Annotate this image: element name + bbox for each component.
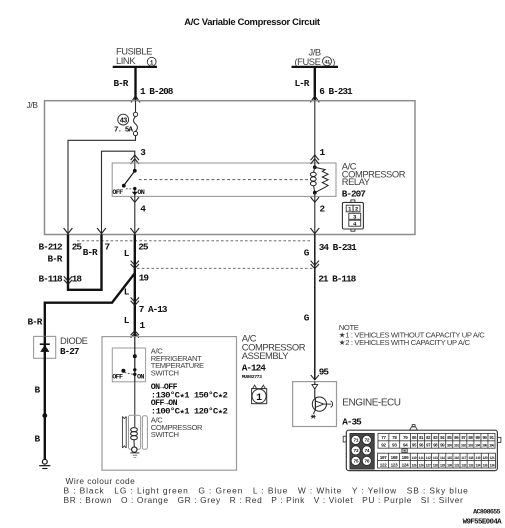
J/B junction block box [45,101,416,235]
J/B bottom connector dashed line [77,240,311,242]
svg-text:102: 102 [461,445,466,449]
svg-text:7 A-13: 7 A-13 [139,304,168,315]
svg-text:131: 131 [454,464,459,468]
fusible link bus bar [113,66,157,68]
relay coil node bottom [313,191,317,195]
svg-text:118: 118 [468,457,473,461]
compressor switch core symbol [121,416,123,448]
svg-text:SWITCH: SWITCH [151,430,179,439]
wire L-R J/B fuse to pin 6 B-231 [314,67,316,101]
svg-text:116: 116 [454,457,459,461]
svg-text:123: 123 [391,462,399,468]
A/C compressor assembly box [102,337,237,471]
svg-text:92: 92 [381,443,386,449]
connector arrow into J/B at B-208 [131,96,140,103]
svg-text:B-118: B-118 [39,274,64,285]
svg-text:ASSEMBLY: ASSEMBLY [242,350,289,361]
svg-text:SWITCH: SWITCH [151,369,179,378]
svg-text:108: 108 [391,455,399,461]
wire inside J/B to fuse 43 [135,101,137,113]
svg-text:134: 134 [475,464,480,468]
wire J/B pin 7 up to relay contact pin 3 [102,151,135,234]
arrow from ON contact down [132,192,138,196]
svg-text:B-212: B-212 [39,242,64,253]
svg-text:132: 132 [461,464,466,468]
diode symbol [40,343,50,345]
svg-text:129: 129 [440,464,445,468]
connector arrow into J/B at B-231 [310,96,319,103]
svg-text:A/C Variable Compressor Circui: A/C Variable Compressor Circuit [184,16,320,27]
svg-text:25: 25 [138,242,149,253]
wire relay pin 4 to J/B exit pin 25 [131,197,139,202]
svg-text:109: 109 [401,455,409,461]
svg-text:124: 124 [401,462,409,468]
connector arrows at relay pin 3 [131,155,139,160]
svg-text:6 B-231: 6 B-231 [319,86,353,97]
connector arrows into assembly pin 1 [131,331,139,336]
svg-text:OFF: OFF [112,189,123,197]
emitter to internal ground [313,410,315,414]
connector B-118 pin 21 crossing [311,261,319,266]
svg-text:ON: ON [137,189,144,197]
svg-text:110: 110 [411,457,416,461]
wire relay pin 2 to J/B exit pin 34 [311,197,319,202]
svg-text:LINK: LINK [116,55,136,66]
svg-text:119: 119 [475,457,480,461]
connector A-124 round icon [253,385,257,389]
wire into ECU [314,382,316,399]
open triangle [312,385,318,389]
svg-text:105: 105 [482,445,487,449]
svg-text:A-35: A-35 [342,416,362,427]
svg-text:73: 73 [353,448,358,454]
J/B fuse bus bar [292,66,339,68]
svg-text:95: 95 [319,367,330,378]
relay contact common dot [133,169,137,173]
svg-text:72: 72 [364,438,369,444]
wire B-R fusible link to J/B pin 1 B-208 [134,67,136,101]
svg-text:1: 1 [256,393,262,404]
svg-text:136: 136 [490,464,495,468]
svg-text:RELAY: RELAY [342,176,371,187]
wire through diode to ground [44,336,46,459]
svg-text:41: 41 [324,60,330,66]
svg-text:126: 126 [419,464,424,468]
A-35 circular cavity block pins 71-76 [350,434,374,470]
wire temp switch to compressor switch [134,382,136,427]
svg-text:78: 78 [392,435,397,441]
svg-text:ON: ON [137,373,144,381]
svg-text:BR : Brown O : Orange GR :: BR : Brown O : Orange GR : Grey R : Red … [64,495,464,505]
svg-text:76: 76 [364,459,369,465]
svg-text:A-124: A-124 [242,363,267,374]
fuse 43 7.5A [133,112,137,116]
svg-text:B-207: B-207 [342,188,366,199]
junction dot [42,413,47,418]
wire inside J/B from B-231 pin 6 down to relay coil pin 1 [314,101,316,168]
connector arrow into ECU pin 95 [311,375,319,380]
relay coil node top [313,165,317,169]
svg-text:115: 115 [447,457,452,461]
svg-text:1: 1 [348,206,352,213]
svg-text:114: 114 [440,457,445,461]
relay resistor (parallel) [315,167,328,192]
wire fuse 43 output to J/B exit pin 25 (B-212) [68,136,136,235]
svg-text:107: 107 [380,455,388,461]
relay coil windings [314,167,315,172]
svg-text:B-R: B-R [83,247,98,258]
right guide box [142,416,147,450]
svg-text:111: 111 [419,457,424,461]
svg-text:43: 43 [120,117,127,125]
svg-text:L-R: L-R [295,78,310,89]
dashed line relay contact to coil [139,179,310,181]
svg-text:71: 71 [353,438,358,444]
svg-text:DIODE: DIODE [60,335,88,346]
svg-text:121: 121 [490,457,495,461]
connector B-118 pin 18 crossing [64,276,72,281]
svg-text:25: 25 [72,242,83,253]
wire through temp switch [134,337,136,382]
svg-text:J/B: J/B [27,100,39,110]
connector arrows at relay pin 1 [311,155,319,160]
connector B-118 pin 19 crossing [131,261,139,266]
svg-text:133: 133 [468,464,473,468]
svg-text:135: 135 [482,464,487,468]
svg-text:2: 2 [355,206,359,213]
compressor case ground [130,452,139,454]
ON contact dot [133,187,136,190]
svg-text:1 B-208: 1 B-208 [140,86,174,97]
connector A-35 pin layout [343,425,501,471]
svg-text:125: 125 [411,464,416,468]
wire G from J/B pin 34 B-231 to engine ECU pin 95 [314,235,316,380]
connector A-13 pin 7 crossing [131,297,139,302]
compressor switch terminal circle [132,447,137,452]
compressor switch body [129,415,141,449]
svg-text:103: 103 [468,445,473,449]
svg-text:104: 104 [475,445,480,449]
svg-text:113: 113 [433,457,438,461]
compressor switch coil [131,428,138,432]
svg-text:W9F55E004A: W9F55E004A [463,519,503,527]
svg-text:117: 117 [461,457,466,461]
svg-text:93: 93 [392,443,397,449]
svg-text:18: 18 [72,274,83,285]
svg-text:7: 7 [105,242,110,253]
svg-text:1: 1 [150,59,154,66]
svg-text:130: 130 [447,464,452,468]
svg-text:112: 112 [426,457,431,461]
svg-text:19: 19 [139,273,150,284]
svg-text:74: 74 [364,448,369,454]
svg-text:B-R: B-R [28,317,43,328]
engine-ECU box [293,382,337,427]
svg-text:120: 120 [482,457,487,461]
svg-text:MU802773: MU802773 [242,374,262,380]
svg-text:ENGINE-ECU: ENGINE-ECU [342,398,401,409]
wire L from J/B pin 25 to A/C compressor assembly pin 1 [134,235,136,337]
wire B-R U-loop J/B pin 25 through B-118 pin 18 back to pin 7 [68,235,102,290]
A-35 keying tab [402,449,407,453]
svg-text:7. 5A: 7. 5A [114,127,134,135]
svg-text:75: 75 [353,459,358,465]
svg-text:34 B-231: 34 B-231 [319,242,357,253]
svg-text:4: 4 [353,221,357,228]
svg-text:77: 77 [381,435,386,441]
svg-text:79: 79 [403,435,408,441]
svg-text:B-R: B-R [114,78,129,89]
svg-text:94: 94 [403,443,408,449]
diode B-27 box [34,336,56,358]
transistor U (output driver) [312,397,326,411]
svg-text:106: 106 [489,445,494,449]
wire branch L to diode B-27 [45,273,135,336]
svg-text:122: 122 [380,462,388,468]
ground [42,459,47,464]
svg-text:★2 : VEHICLES WITH CAPACITY UP: ★2 : VEHICLES WITH CAPACITY UP A/C [339,338,471,347]
svg-text:Wire colour code: Wire colour code [66,476,136,486]
relay contact blade (OFF position) [124,171,135,186]
dashed connector line B-118 [137,267,313,269]
connector B-207 pin layout [342,200,363,231]
dashed link blade to ON contact [126,188,133,190]
svg-text:128: 128 [433,464,438,468]
temp switch contacts [133,354,137,358]
svg-text:OFF: OFF [112,373,123,381]
svg-text:B-27: B-27 [60,346,79,357]
svg-text:AC808655: AC808655 [473,508,500,515]
svg-text:): ) [332,56,335,67]
svg-text:101: 101 [454,445,459,449]
A/C refrigerant temperature switch box [112,348,145,382]
svg-text:21 B-118: 21 B-118 [318,274,356,285]
svg-text:B-R: B-R [48,254,63,265]
svg-text:(FUSE: (FUSE [295,56,321,67]
svg-text:127: 127 [426,464,431,468]
svg-text:100: 100 [447,445,452,449]
A/C compressor relay outline box [112,163,336,196]
